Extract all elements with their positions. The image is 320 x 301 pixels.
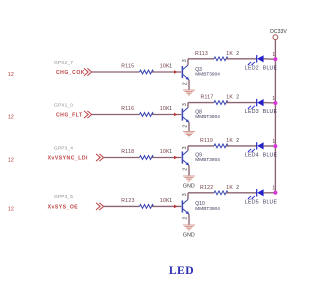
svg-text:LED4: LED4 xyxy=(245,153,259,159)
wire R113 to LED2 cathode xyxy=(226,58,257,60)
svg-text:R117: R117 xyxy=(201,95,214,101)
LED LED3 triangle xyxy=(257,99,263,106)
junction arrow at Q10 base xyxy=(174,205,177,209)
svg-text:12: 12 xyxy=(8,115,14,121)
resistor R113 body xyxy=(214,57,228,61)
svg-text:GND: GND xyxy=(183,233,195,239)
wire LED2 anode to DC33V bus xyxy=(264,58,276,60)
svg-text:1: 1 xyxy=(169,149,172,155)
LED LED4 emission arrows xyxy=(248,149,255,152)
svg-text:LED: LED xyxy=(169,264,194,277)
transistor Q8 emitter arrow xyxy=(185,119,189,122)
svg-text:MMBT3904: MMBT3904 xyxy=(195,206,220,212)
svg-text:2: 2 xyxy=(183,216,189,219)
svg-text:2: 2 xyxy=(236,51,239,57)
svg-text:GPX2_7: GPX2_7 xyxy=(54,60,73,66)
svg-text:2: 2 xyxy=(236,95,239,101)
transistor Q8 emitter lead xyxy=(183,117,189,122)
port connector CHG_FLT chevron xyxy=(84,111,88,118)
svg-text:3: 3 xyxy=(182,103,188,106)
svg-text:MMBT3904: MMBT3904 xyxy=(195,114,220,120)
svg-text:MMBT3904: MMBT3904 xyxy=(195,72,220,78)
transistor Q3 base bar xyxy=(181,66,183,78)
wire R118 to Q9 base xyxy=(152,157,182,159)
transistor Q9 collector lead xyxy=(183,151,188,156)
wire collector of Q10 up to resistor row xyxy=(187,193,189,200)
svg-text:12: 12 xyxy=(8,72,14,78)
transistor Q3 emitter arrow xyxy=(185,77,189,80)
svg-text:12: 12 xyxy=(8,158,14,164)
wire DC33V vertical bus xyxy=(274,40,276,193)
junction arrow at Q8 base xyxy=(174,113,177,117)
wire emitter of Q10 down to ground xyxy=(188,214,190,225)
transistor Q10 base bar xyxy=(181,200,183,212)
wire LED5 anode to DC33V bus xyxy=(264,192,276,194)
junction on DC33V bus row 4 xyxy=(273,191,277,195)
wire collector of Q9 up to resistor row xyxy=(187,146,189,151)
svg-text:1: 1 xyxy=(272,186,275,192)
svg-text:GPP3_4: GPP3_4 xyxy=(54,145,73,151)
resistor R123 body xyxy=(140,205,154,209)
wire collector of Q8 up to resistor row xyxy=(187,103,189,108)
wire LED3 anode to DC33V bus xyxy=(264,102,276,104)
svg-text:LED3: LED3 xyxy=(245,109,259,115)
ground symbol below Q8 xyxy=(183,132,195,137)
resistor R119 body xyxy=(214,144,228,148)
wire emitter of Q3 down to ground xyxy=(188,80,190,90)
junction on DC33V bus row 3 xyxy=(273,144,277,148)
LED LED2 triangle xyxy=(257,55,263,62)
wire Q8 collector to R117 xyxy=(188,102,214,104)
transistor Q10 emitter arrow xyxy=(185,211,189,214)
LED LED5 cathode bar xyxy=(256,189,258,196)
LED LED4 cathode bar xyxy=(256,142,258,149)
LED LED2 cathode bar xyxy=(256,55,258,62)
svg-text:1: 1 xyxy=(272,52,275,58)
LED LED5 emission arrows xyxy=(248,196,255,199)
svg-text:GND: GND xyxy=(183,184,195,190)
svg-text:BLUE: BLUE xyxy=(263,199,278,205)
wire XvSYS_OE to R123 xyxy=(104,205,140,207)
svg-text:3: 3 xyxy=(182,146,188,149)
transistor Q8 base bar xyxy=(181,109,183,121)
svg-text:GPX1_0: GPX1_0 xyxy=(54,102,73,108)
wire Q3 collector to R113 xyxy=(188,58,214,60)
resistor R116 body xyxy=(140,113,154,117)
wire XvVSYNC_LDI to R118 xyxy=(104,157,140,159)
junction arrow at Q3 base xyxy=(174,70,177,74)
transistor Q8 collector lead xyxy=(183,108,188,113)
svg-text:GPP3_5: GPP3_5 xyxy=(54,194,73,200)
svg-text:1: 1 xyxy=(169,64,172,70)
wire R116 to Q8 base xyxy=(152,114,182,116)
svg-text:LED2: LED2 xyxy=(245,65,259,71)
power symbol DC33V circle xyxy=(273,35,278,40)
resistor R122 body xyxy=(214,191,228,195)
junction arrow at Q9 base xyxy=(174,156,177,160)
wire CHG_COK to R115 xyxy=(92,71,140,73)
junction on DC33V bus row 2 xyxy=(273,101,277,105)
ground symbol below Q9 xyxy=(183,176,195,181)
transistor Q3 collector lead xyxy=(183,65,188,70)
transistor Q9 emitter lead xyxy=(183,160,189,165)
wire R119 to LED4 cathode xyxy=(226,145,257,147)
wire CHG_FLT to R116 xyxy=(92,114,140,116)
transistor Q10 emitter lead xyxy=(183,209,189,214)
LED LED5 triangle xyxy=(257,189,263,196)
ground symbol below Q10 xyxy=(183,225,195,230)
resistor R118 body xyxy=(140,156,154,160)
svg-text:R123: R123 xyxy=(121,198,134,204)
svg-text:2: 2 xyxy=(236,185,239,191)
svg-text:BLUE: BLUE xyxy=(263,109,278,115)
ground symbol below Q3 xyxy=(183,90,195,95)
svg-text:1: 1 xyxy=(169,198,172,204)
svg-text:MMBT3904: MMBT3904 xyxy=(195,157,220,163)
svg-text:R115: R115 xyxy=(121,64,134,70)
svg-text:CHG_COK: CHG_COK xyxy=(56,70,85,76)
transistor Q9 base bar xyxy=(181,152,183,164)
svg-text:2: 2 xyxy=(183,82,189,85)
svg-text:1: 1 xyxy=(272,96,275,102)
wire R115 to Q3 base xyxy=(152,71,182,73)
wire R117 to LED3 cathode xyxy=(226,102,257,104)
transistor Q9 emitter arrow xyxy=(185,162,189,165)
wire Q9 collector to R119 xyxy=(188,145,214,147)
junction on DC33V bus row 1 xyxy=(273,57,277,61)
svg-text:BLUE: BLUE xyxy=(263,153,278,159)
svg-text:R116: R116 xyxy=(121,106,134,112)
svg-text:2: 2 xyxy=(236,138,239,144)
wire LED4 anode to DC33V bus xyxy=(264,145,276,147)
svg-text:1K: 1K xyxy=(226,138,233,144)
svg-text:BLUE: BLUE xyxy=(263,65,278,71)
resistor R117 body xyxy=(214,101,228,105)
svg-text:1K: 1K xyxy=(226,51,233,57)
LED LED3 cathode bar xyxy=(256,99,258,106)
transistor Q3 emitter lead xyxy=(183,75,189,80)
svg-text:2: 2 xyxy=(183,168,189,171)
svg-text:R118: R118 xyxy=(121,149,134,155)
LED LED4 triangle xyxy=(257,142,263,149)
svg-text:LED5: LED5 xyxy=(245,199,259,205)
LED LED3 emission arrows xyxy=(248,106,255,109)
svg-text:XvSYS_OE: XvSYS_OE xyxy=(48,205,79,211)
port connector XvSYS_OE chevron xyxy=(96,203,100,210)
port connector XvVSYNC_LDI chevron xyxy=(96,154,100,161)
svg-text:R119: R119 xyxy=(200,138,213,144)
svg-text:1: 1 xyxy=(169,106,172,112)
svg-text:CHG_FLT: CHG_FLT xyxy=(56,113,83,119)
svg-text:XvVSYNC_LDI: XvVSYNC_LDI xyxy=(48,156,88,162)
svg-text:DC33V: DC33V xyxy=(270,29,287,35)
wire R123 to Q10 base xyxy=(152,205,182,207)
svg-text:2: 2 xyxy=(183,125,189,128)
transistor Q10 collector lead xyxy=(183,199,188,204)
svg-text:12: 12 xyxy=(8,206,14,212)
port connector CHG_COK chevron xyxy=(84,68,88,75)
LED LED2 emission arrows xyxy=(248,62,255,65)
svg-text:1: 1 xyxy=(272,139,275,145)
svg-text:1K: 1K xyxy=(226,185,233,191)
svg-text:1K: 1K xyxy=(226,95,233,101)
wire emitter of Q8 down to ground xyxy=(188,122,190,131)
svg-text:3: 3 xyxy=(182,193,188,196)
resistor R115 body xyxy=(140,70,154,74)
wire R122 to LED5 cathode xyxy=(226,192,257,194)
wire collector of Q3 up to resistor row xyxy=(187,59,189,65)
svg-text:R113: R113 xyxy=(195,51,208,57)
svg-text:3: 3 xyxy=(182,59,188,62)
wire emitter of Q9 down to ground xyxy=(188,165,190,176)
wire Q10 collector to R122 xyxy=(188,192,214,194)
svg-text:R122: R122 xyxy=(200,185,213,191)
